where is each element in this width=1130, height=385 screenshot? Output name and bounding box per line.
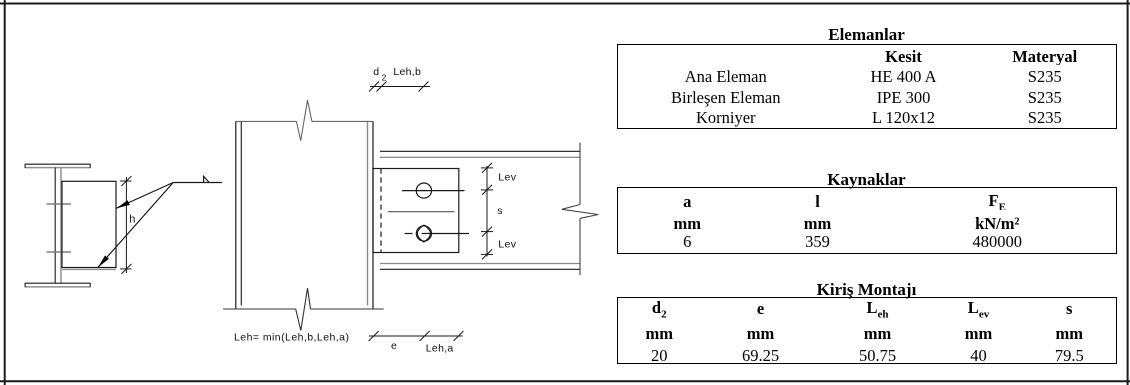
beam flanges	[380, 151, 580, 269]
field weld flag	[204, 176, 210, 182]
column bottom edge with break	[223, 288, 384, 330]
I-beam bottom flange	[25, 282, 91, 284]
dimension h	[120, 176, 132, 274]
svg-text:Leh= min(Leh,b,Leh,a): Leh= min(Leh,b,Leh,a)	[234, 332, 349, 344]
svg-text:h: h	[129, 214, 135, 226]
bolt marks through web	[47, 203, 72, 205]
frame top	[0, 3, 1130, 5]
dimension Lev / s / Lev	[481, 163, 493, 260]
svg-text:2: 2	[382, 73, 387, 83]
svg-text:Lev: Lev	[498, 238, 516, 250]
column flange lines	[236, 121, 373, 309]
table Kiris Montaji	[617, 297, 1117, 364]
table Kaynaklar title	[617, 170, 1116, 190]
table Kaynaklar	[617, 187, 1117, 254]
svg-text:Lev: Lev	[498, 171, 516, 183]
top dimension d2 / Leh,b	[369, 82, 430, 92]
angle plate (left view)	[62, 181, 116, 267]
bolt 2	[405, 225, 469, 242]
fillet line under plate	[62, 268, 116, 270]
svg-text:e: e	[391, 340, 397, 352]
leader to plate bottom	[98, 183, 173, 268]
angle plate (middle view)	[373, 169, 459, 253]
svg-text:s: s	[497, 205, 502, 217]
angle mid edge	[388, 211, 455, 213]
I-beam web	[54, 168, 56, 284]
svg-text:d: d	[373, 66, 379, 78]
I-beam top flange	[25, 163, 91, 165]
arrowhead 2	[98, 256, 109, 268]
beam end line with break	[562, 143, 598, 275]
arrowhead 1	[116, 200, 129, 208]
table Kiris Montaji title	[617, 280, 1116, 300]
bottom dimension e / Leh,a	[369, 331, 464, 341]
bolt 1	[402, 183, 465, 198]
weld symbol reference line	[98, 176, 222, 267]
hidden edge dashed line	[380, 169, 382, 254]
svg-text:Leh,b: Leh,b	[393, 66, 421, 78]
leader to plate edge	[116, 183, 173, 209]
column top edge with break	[235, 100, 373, 141]
frame right	[1127, 0, 1129, 385]
table Elemanlar title	[617, 25, 1116, 45]
table Elemanlar	[617, 44, 1117, 129]
frame bottom	[0, 380, 1130, 382]
frame left	[4, 0, 6, 385]
svg-text:Leh,a: Leh,a	[426, 343, 454, 355]
